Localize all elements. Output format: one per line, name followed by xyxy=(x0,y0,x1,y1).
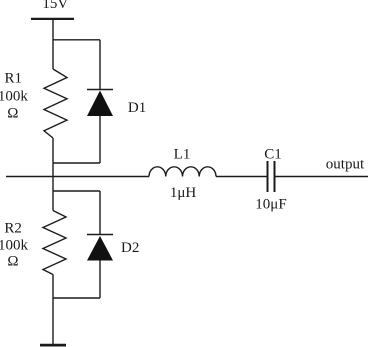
svg-text:C1: C1 xyxy=(264,147,282,163)
svg-text:R1: R1 xyxy=(5,70,23,86)
wire D2 top branch horizontal xyxy=(53,190,100,192)
resistor R2 xyxy=(43,211,66,275)
wire D1 top branch horizontal xyxy=(53,39,100,41)
svg-text:100k: 100k xyxy=(0,88,28,104)
wire D2 top branch vertical xyxy=(99,191,101,235)
wire D1 top branch vertical xyxy=(99,40,101,90)
ground xyxy=(40,344,66,347)
svg-text:R2: R2 xyxy=(4,221,22,237)
wire main horizontal left segment xyxy=(6,176,149,178)
inductor L1 xyxy=(149,167,216,177)
svg-text:L1: L1 xyxy=(174,147,191,163)
wire capacitor to output xyxy=(276,176,368,178)
capacitor C1 xyxy=(268,161,275,192)
svg-text:Ω: Ω xyxy=(7,253,18,269)
wire D1 bottom branch vertical xyxy=(99,116,101,163)
svg-text:D1: D1 xyxy=(128,100,146,116)
diode D2 xyxy=(87,235,113,261)
svg-text:15V: 15V xyxy=(42,0,68,12)
wire D2 bottom branch vertical xyxy=(99,261,101,299)
wire D2 bottom branch horizontal xyxy=(53,297,100,299)
svg-text:output: output xyxy=(326,156,365,172)
svg-text:1μH: 1μH xyxy=(170,185,197,201)
svg-text:10μF: 10μF xyxy=(255,197,286,213)
wire R2 bottom to ground xyxy=(52,275,54,345)
diode D1 xyxy=(87,90,113,117)
svg-text:Ω: Ω xyxy=(7,105,18,121)
resistor R1 xyxy=(44,69,67,138)
svg-text:D2: D2 xyxy=(121,240,139,256)
power supply bar 15V xyxy=(31,18,74,20)
wire R1 bottom to R2 top (main vertical) xyxy=(52,138,54,211)
wire D1 bottom branch horizontal xyxy=(53,162,100,164)
wire inductor to capacitor xyxy=(216,176,267,178)
svg-text:100k: 100k xyxy=(0,238,29,254)
wire supply bar to R1 top xyxy=(52,19,54,69)
